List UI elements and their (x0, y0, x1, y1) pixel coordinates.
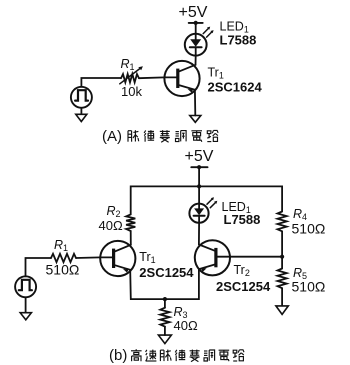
wire: R5 to ground (circuit B) (281, 288, 283, 306)
caption B CJK text (drawn) (131, 349, 244, 361)
wire: pulse source to R1 (circuit B) (26, 258, 52, 276)
caption A CJK text (drawn) (128, 130, 218, 142)
svg-text:510Ω: 510Ω (292, 221, 326, 237)
wire: LED1 cathode to Tr1 collector (circuit A) (195, 56, 197, 65)
LED LED1 (circuit B) (189, 204, 208, 223)
svg-text:+5V: +5V (185, 148, 214, 165)
wire: pulse source to ground (circuit A) (80, 108, 82, 114)
svg-text:L7588: L7588 (224, 212, 261, 227)
wire: R4 to node (circuit B) (281, 231, 283, 268)
ground symbol under pulse source (circuit A) (76, 114, 87, 121)
svg-text:2SC1254: 2SC1254 (139, 265, 194, 280)
ground symbol under R5 (circuit B) (276, 306, 288, 315)
resistor R4 510ohm (circuit B) (278, 212, 287, 232)
wire: R3 to ground (circuit B) (164, 327, 166, 336)
ground symbol under R3 (circuit B) (158, 335, 171, 344)
resistor R5 510ohm (circuit B) (278, 269, 287, 289)
svg-text:(b): (b) (109, 347, 127, 364)
+5V supply bar (circuit B) (191, 166, 207, 168)
resistor R1 10k variable (circuit A) (120, 66, 143, 84)
junction dot common emitter node (circuit B) (163, 297, 167, 301)
pulse signal source (circuit A) (71, 87, 92, 108)
svg-text:2SC1624: 2SC1624 (208, 80, 263, 95)
pulse signal source (circuit B) (15, 276, 36, 297)
svg-text:L7588: L7588 (220, 33, 257, 48)
wire: pulse source to R1 (circuit A) (81, 78, 120, 87)
top rail (circuit B) (131, 186, 282, 214)
junction dot rail/LED (circuit B) (197, 184, 201, 188)
svg-text:40Ω: 40Ω (99, 218, 123, 233)
junction dot R4/R5/base node (circuit B) (280, 255, 284, 259)
wire: R2 to Tr1 collector (circuit B) (130, 231, 132, 245)
transistor Tr2 2SC1254 (circuit B, mirrored) (195, 240, 230, 275)
+5V supply bar (circuit A) (189, 22, 203, 24)
junction dot on supply bar A (194, 21, 198, 25)
svg-text:+5V: +5V (179, 4, 208, 21)
transistor Tr1 2SC1254 (circuit B) (100, 241, 135, 276)
svg-text:510Ω: 510Ω (292, 279, 326, 295)
LED1 light-emission arrows (circuit B) (207, 197, 217, 208)
wire: pulse source to ground (circuit B) (25, 297, 27, 312)
svg-text:(A): (A) (102, 128, 122, 145)
resistor R1 510ohm (circuit B) (51, 254, 76, 262)
svg-text:10k: 10k (121, 84, 142, 99)
junction dot on supply bar B (197, 165, 201, 169)
caption (A) pulse modulation circuit (102, 128, 122, 145)
transistor Tr1 2SC1624 (circuit A) (164, 61, 199, 96)
wire: R1 to Tr1 base (circuit B) (76, 256, 100, 259)
wire: R1 to Tr1 base (circuit A) (139, 76, 164, 79)
wire: Tr1 emitter down to common emitter node (circuit B) (130, 269, 199, 299)
resistor R3 40ohm (circuit B) (160, 308, 169, 327)
wire: node to R3 (circuit B) (164, 299, 166, 308)
wire: supply bar to LED1 anode (circuit A) (195, 23, 197, 34)
resistor R2 40ohm (circuit B) (126, 214, 135, 231)
ground symbol under Tr1 emitter (circuit A) (190, 116, 201, 123)
LED LED1 (circuit A) (185, 34, 207, 56)
wire: LED1 cathode to Tr2 collector (circuit B) (198, 223, 200, 245)
svg-text:40Ω: 40Ω (174, 318, 198, 333)
svg-text:2SC1254: 2SC1254 (216, 279, 271, 294)
wire: supply bar to top rail (circuit B) (198, 167, 200, 186)
LED1 light-emission arrows (circuit A) (203, 27, 213, 37)
wire: Tr1 emitter to ground (circuit A) (194, 90, 196, 116)
svg-text:510Ω: 510Ω (46, 262, 80, 278)
ground symbol under pulse source (circuit B) (20, 313, 31, 320)
wire: Tr2 base to R4/R5 node (circuit B) (230, 256, 282, 258)
wire: rail to LED1 (circuit B) (198, 186, 200, 203)
